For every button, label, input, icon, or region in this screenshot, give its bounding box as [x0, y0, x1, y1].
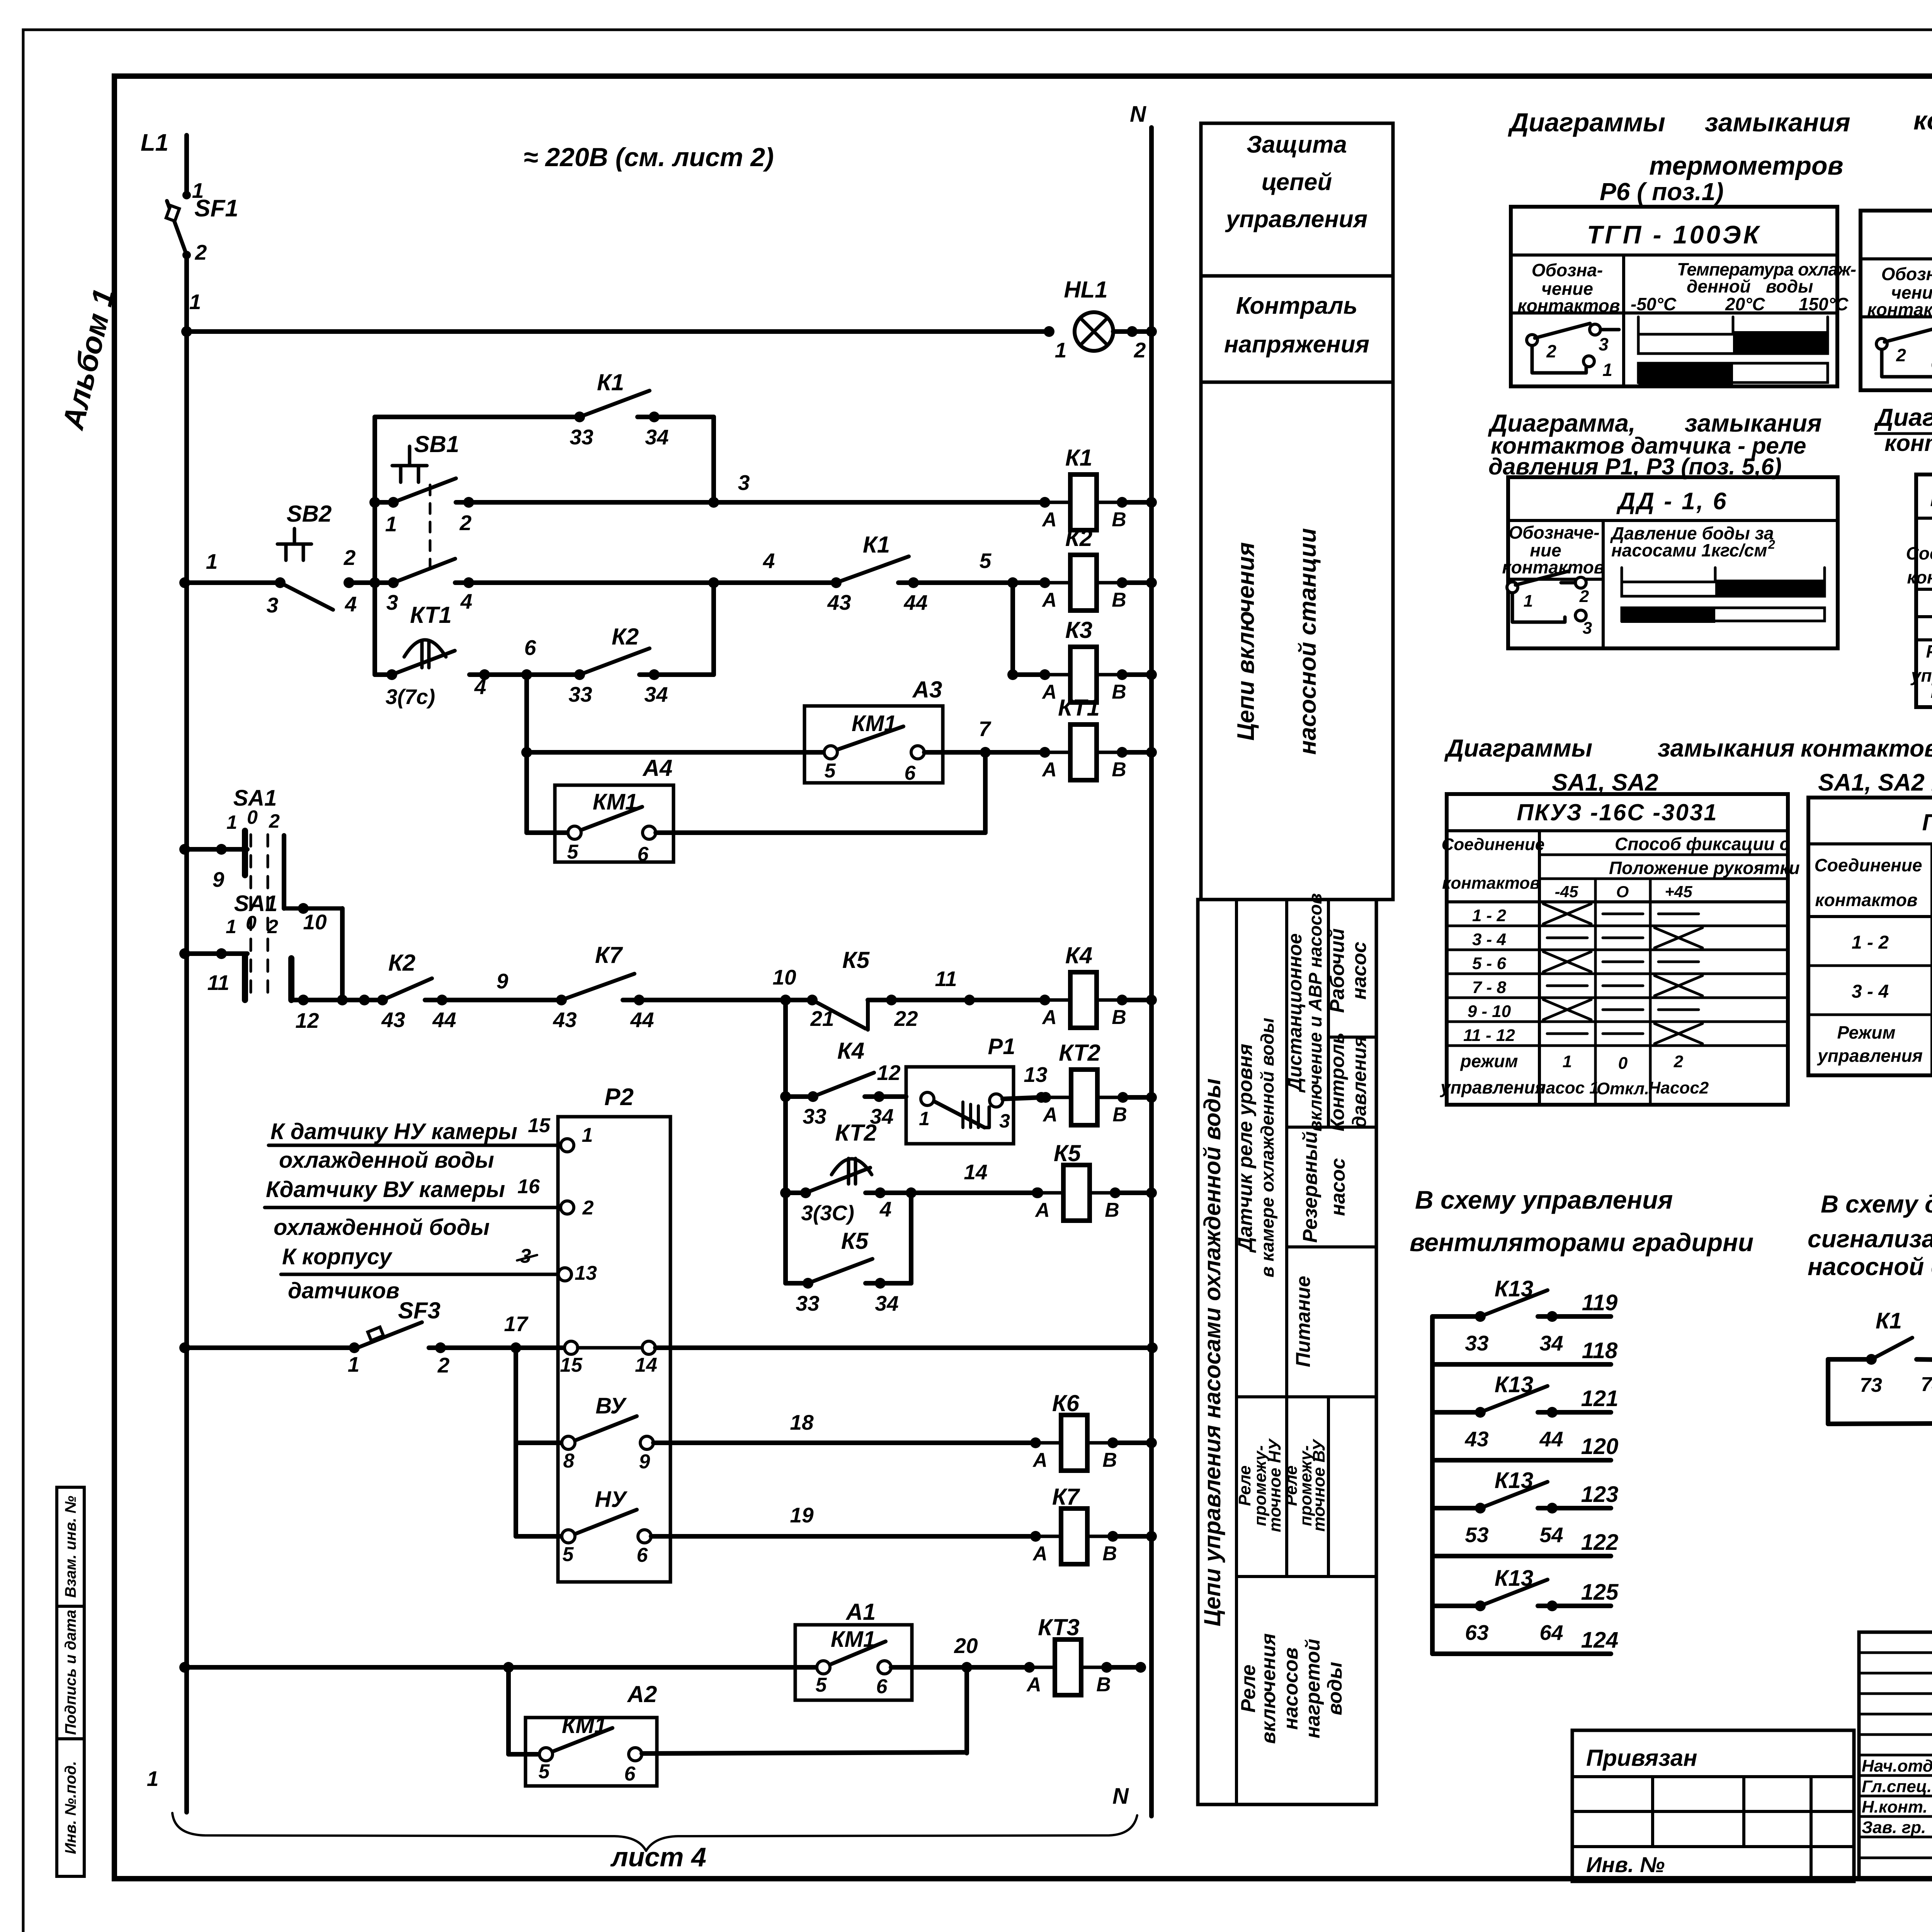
svg-text:Резервный: Резервный [1299, 1131, 1321, 1243]
svg-text:управления: управления [1440, 1077, 1546, 1097]
svg-text:КТ2: КТ2 [835, 1120, 877, 1146]
svg-text:20°С: 20°С [1725, 294, 1765, 314]
pressure switch box P1 [906, 1067, 1014, 1144]
wire rung A2 [506, 1667, 511, 1754]
svg-text:43: 43 [381, 1008, 405, 1032]
svg-text:11: 11 [207, 971, 229, 995]
lamp HL1 [1044, 326, 1054, 337]
svg-text:9: 9 [213, 867, 224, 891]
svg-text:В: В [1112, 681, 1126, 703]
svg-text:6: 6 [876, 1675, 888, 1698]
svg-text:5: 5 [567, 841, 579, 863]
svg-text:Цепи управления насосами ох: Цепи управления насосами охлажденной вод… [1199, 1078, 1225, 1626]
wire rung A4 [527, 830, 540, 835]
svg-text:Подпись и дата: Подпись и дата [62, 1610, 79, 1735]
svg-text:3(3С): 3(3С) [801, 1201, 854, 1225]
svg-text:контактов: контактов [1913, 106, 1932, 135]
wire rung 3 [375, 500, 393, 505]
svg-text:А: А [1032, 1543, 1048, 1565]
wire branch corner [638, 415, 714, 419]
svg-text:9: 9 [497, 969, 509, 993]
svg-text:Реле: Реле [1237, 1665, 1260, 1713]
svg-text:13: 13 [1024, 1063, 1047, 1087]
table PKU3-16C-3031 [1447, 794, 1788, 1105]
svg-text:контактов: контактов [1907, 567, 1932, 587]
relay coil КТ2 [1040, 1092, 1051, 1103]
svg-text:Р6 ( поз.1): Р6 ( поз.1) [1600, 178, 1724, 206]
svg-text:К1: К1 [1065, 445, 1092, 471]
svg-text:Инв. №: Инв. № [1586, 1852, 1665, 1877]
svg-text:насосами 1кгс/см: насосами 1кгс/см [1611, 540, 1767, 560]
svg-text:9: 9 [639, 1451, 650, 1473]
svg-text:5 - 6: 5 - 6 [1472, 954, 1507, 973]
svg-text:А3: А3 [912, 677, 942, 702]
left rail wire 1 [184, 255, 189, 1812]
svg-text:насосной станции): насосной станции) [1808, 1253, 1932, 1281]
svg-text:В: В [1112, 1104, 1127, 1126]
svg-text:10: 10 [303, 910, 327, 934]
changeover contact symbol [1876, 338, 1887, 349]
svg-text:2: 2 [582, 1197, 594, 1219]
closure bar diagram DD [1621, 568, 1623, 580]
sheet-4 brace [172, 1813, 1137, 1851]
svg-text:цепей: цепей [1262, 169, 1332, 196]
wire rung 18 [653, 1440, 1036, 1445]
svg-text:33: 33 [570, 425, 593, 449]
wire stub 11 [179, 948, 190, 959]
svg-text:121: 121 [1581, 1386, 1619, 1411]
circuit breaker SF3 [357, 1322, 422, 1348]
svg-text:150°С: 150°С [1799, 294, 1849, 314]
svg-text:2: 2 [269, 810, 280, 832]
linkage dashed [250, 835, 252, 997]
svg-text:К4: К4 [1065, 942, 1092, 968]
wire stub 9 [179, 844, 190, 855]
svg-text:3: 3 [999, 1110, 1010, 1132]
svg-text:А: А [1041, 759, 1057, 781]
contact K1 33-34 [574, 412, 585, 422]
svg-text:33: 33 [568, 682, 592, 706]
wire 118 [1432, 1362, 1611, 1367]
svg-text:К5: К5 [841, 1228, 869, 1254]
svg-text:К13: К13 [1495, 1468, 1533, 1493]
column lower box grid [1198, 900, 1376, 1804]
svg-text:44: 44 [630, 1008, 654, 1032]
svg-text:124: 124 [1581, 1628, 1619, 1653]
svg-text:включение и АВР насосов: включение и АВР насосов [1305, 893, 1325, 1132]
svg-text:1: 1 [1563, 1052, 1572, 1071]
wire drop to K3 [1007, 577, 1018, 588]
relay coil К2 [1039, 577, 1050, 588]
contact K7 43-44 [556, 995, 567, 1005]
svg-text:насос: насос [1348, 942, 1371, 1000]
svg-text:Взам. инв. №: Взам. инв. № [62, 1496, 79, 1598]
svg-text:7 - 8: 7 - 8 [1472, 978, 1507, 997]
N rail [1149, 128, 1154, 1816]
svg-text:К4: К4 [837, 1038, 864, 1064]
svg-text:1: 1 [348, 1352, 360, 1376]
svg-text:Защита: Защита [1247, 131, 1347, 158]
svg-text:ПКУЗ - 16Н - 0101: ПКУЗ - 16Н - 0101 [1930, 485, 1932, 511]
svg-text:Р2: Р2 [604, 1084, 634, 1111]
svg-text:управления: управления [1817, 1046, 1923, 1066]
svg-text:Обозна-: Обозна- [1881, 264, 1932, 284]
contact K1 43-44 [831, 577, 842, 588]
svg-text:Способ фиксации с: Способ фиксации с [1615, 834, 1789, 854]
svg-text:А: А [1041, 1006, 1057, 1029]
svg-text:Диаграммы: Диаграммы [1444, 734, 1592, 762]
svg-text:Соединение: Соединение [1906, 543, 1932, 563]
svg-text:В схему диспетчерской: В схему диспетчерской [1821, 1190, 1932, 1218]
svg-text:управле-: управле- [1910, 665, 1932, 685]
table PKU3-16N-0101 [1916, 474, 1932, 707]
svg-text:5: 5 [825, 760, 836, 782]
svg-text:включения: включения [1257, 1633, 1280, 1744]
svg-text:К2: К2 [388, 950, 415, 976]
svg-text:КТ2: КТ2 [1059, 1040, 1100, 1066]
svg-text:1: 1 [1602, 360, 1612, 380]
svg-text:А: А [1032, 1449, 1048, 1471]
wire rung 1 [187, 329, 1049, 334]
svg-text:2: 2 [267, 916, 278, 937]
svg-text:Контроль: Контроль [1327, 1032, 1348, 1131]
svg-text:11 - 12: 11 - 12 [1463, 1026, 1515, 1045]
svg-text:4: 4 [879, 1197, 892, 1221]
svg-text:15: 15 [528, 1114, 551, 1137]
svg-text:1: 1 [226, 811, 237, 833]
svg-text:0: 0 [1618, 1054, 1628, 1073]
svg-text:В: В [1112, 759, 1126, 781]
svg-text:+45: +45 [1665, 883, 1692, 901]
svg-text:6: 6 [905, 762, 916, 784]
svg-text:2: 2 [1579, 587, 1589, 606]
svg-text:Положение рукоятки: Положение рукоятки [1609, 858, 1800, 878]
svg-text:34: 34 [1539, 1331, 1563, 1355]
privyazan box [1572, 1730, 1854, 1881]
sub-rail [372, 417, 377, 675]
svg-text:6: 6 [637, 1544, 648, 1566]
svg-text:43: 43 [1464, 1427, 1488, 1451]
svg-text:контактов: контактов [1442, 874, 1540, 893]
svg-text:1 - 2: 1 - 2 [1472, 906, 1507, 925]
svg-text:3 - 4: 3 - 4 [1852, 981, 1889, 1002]
svg-text:К13: К13 [1495, 1372, 1533, 1397]
svg-text:SА1, SА2: SА1, SА2 [1552, 769, 1658, 796]
relay coil К7 [1030, 1531, 1041, 1542]
terminal box P2 [558, 1117, 670, 1582]
svg-text:замыкания: замыкания [1705, 108, 1850, 137]
svg-text:2: 2 [344, 546, 356, 570]
contact K1 73-74 [1828, 1357, 1871, 1362]
contact VU 8-9 [516, 1440, 562, 1445]
svg-text:0: 0 [246, 912, 257, 934]
svg-text:5: 5 [980, 549, 992, 573]
svg-text:Питание: Питание [1292, 1276, 1315, 1367]
svg-text:13: 13 [575, 1262, 597, 1284]
wire drop to K5 contact [909, 1193, 913, 1283]
svg-text:125: 125 [1581, 1580, 1619, 1605]
time contact KT1 [404, 640, 446, 657]
svg-text:44: 44 [903, 590, 927, 614]
svg-text:насос 1: насос 1 [1536, 1078, 1599, 1097]
svg-text:КТ3: КТ3 [1038, 1614, 1080, 1640]
svg-text:12: 12 [877, 1061, 901, 1085]
changeover contact symbol [1527, 335, 1537, 345]
svg-text:54: 54 [1539, 1523, 1563, 1547]
table TGP-100EK [1511, 207, 1837, 386]
svg-text:7: 7 [979, 717, 992, 741]
wire vert inside P2 [514, 1348, 518, 1536]
svg-text:Кдатчику ВУ камеры: Кдатчику ВУ камеры [266, 1177, 505, 1202]
svg-text:управления: управления [1225, 206, 1367, 233]
svg-text:К корпусу: К корпусу [282, 1244, 393, 1269]
svg-text:2: 2 [437, 1353, 450, 1377]
column box Kontrol [1201, 276, 1393, 382]
svg-text:В: В [1105, 1199, 1119, 1221]
svg-text:118: 118 [1582, 1338, 1618, 1363]
svg-text:К1: К1 [1876, 1308, 1902, 1333]
wire rung 12 K4 [780, 1091, 791, 1102]
stamp box Podpis i data [57, 1606, 84, 1739]
svg-text:охлажденной боды: охлажденной боды [274, 1215, 490, 1240]
svg-text:ПЕ 031: ПЕ 031 [1922, 810, 1932, 835]
svg-text:122: 122 [1581, 1530, 1619, 1555]
svg-text:ПКУЗ -16С -3031: ПКУЗ -16С -3031 [1517, 799, 1718, 825]
auxiliary box A3 with KM1 contact [804, 706, 943, 783]
svg-text:ДД - 1, 6: ДД - 1, 6 [1616, 488, 1728, 515]
svg-text:Привязан: Привязан [1586, 1745, 1697, 1771]
svg-text:Датчик реле уровня: Датчик реле уровня [1234, 1044, 1257, 1253]
svg-text:В: В [1102, 1449, 1117, 1471]
contact K3 33-34 [1917, 1359, 1932, 1360]
svg-text:Дистанционное: Дистанционное [1284, 933, 1306, 1093]
svg-text:4: 4 [460, 589, 473, 613]
wire 124 [1432, 1651, 1611, 1656]
relay coil К1 [1039, 497, 1050, 508]
svg-text:Откл.: Откл. [1597, 1079, 1649, 1098]
wire K1 branch [375, 415, 580, 419]
contact К13 33-34 [1432, 1314, 1480, 1319]
svg-text:6: 6 [524, 636, 536, 660]
svg-text:насосов: насосов [1280, 1647, 1302, 1730]
svg-text:А: А [1042, 1104, 1058, 1126]
svg-text:44: 44 [432, 1008, 456, 1032]
svg-text:0: 0 [247, 806, 258, 828]
wire node6 drop [524, 675, 529, 833]
svg-text:охлажденной воды: охлажденной воды [279, 1148, 494, 1173]
svg-text:2: 2 [1673, 1052, 1684, 1071]
table LE 031 [1808, 798, 1932, 1075]
svg-text:воды: воды [1766, 276, 1813, 296]
svg-text:Гл.спец.: Гл.спец. [1862, 1777, 1932, 1796]
svg-text:21: 21 [810, 1007, 834, 1031]
svg-text:17: 17 [504, 1312, 529, 1336]
svg-text:О: О [1616, 883, 1629, 901]
wire up to node 7 [983, 752, 988, 833]
contact K2 33-34 [574, 669, 585, 680]
svg-text:2: 2 [195, 240, 207, 264]
svg-text:3: 3 [386, 590, 398, 614]
svg-text:К13: К13 [1495, 1566, 1533, 1591]
auxiliary box A2 with KM1 contact [526, 1718, 657, 1786]
wire rung 3 to coil [456, 500, 1044, 505]
time contact KT2 [832, 1159, 872, 1175]
svg-text:120: 120 [1581, 1434, 1619, 1459]
relay coil КТ1 [1039, 747, 1050, 758]
relay coil К6 [1030, 1437, 1041, 1448]
svg-text:11: 11 [935, 967, 957, 991]
svg-text:К2: К2 [1065, 525, 1092, 551]
svg-text:3: 3 [267, 593, 279, 617]
phase wire L1 lead [184, 135, 189, 195]
svg-text:А: А [1041, 681, 1057, 703]
svg-text:1: 1 [919, 1108, 930, 1129]
svg-text:в камере охлажденной воды: в камере охлажденной воды [1257, 1018, 1277, 1277]
svg-text:насосной станции: насосной станции [1294, 528, 1321, 755]
svg-text:34: 34 [645, 425, 668, 449]
svg-text:3: 3 [1599, 334, 1609, 354]
svg-text:В: В [1112, 589, 1126, 611]
wire drop node20 [964, 1667, 969, 1753]
svg-text:33: 33 [796, 1291, 819, 1315]
wire rung 3(7c) [375, 672, 392, 677]
auxiliary box A4 with KM1 contact [555, 785, 673, 862]
svg-text:3(7с): 3(7с) [386, 685, 435, 709]
changeover contact symbol DD [1507, 582, 1518, 593]
svg-text:Рабочий: Рабочий [1326, 929, 1349, 1013]
svg-text:N: N [1130, 102, 1146, 127]
svg-text:датчиков: датчиков [288, 1278, 400, 1303]
svg-text:73: 73 [1860, 1374, 1882, 1396]
svg-text:Диаграммы: Диаграммы [1508, 108, 1665, 137]
contact SB1 lower [388, 577, 399, 588]
svg-text:В: В [1102, 1543, 1117, 1565]
svg-text:4: 4 [763, 549, 775, 573]
svg-text:А: А [1041, 509, 1057, 531]
svg-text:16: 16 [517, 1175, 540, 1198]
auxiliary box A1 with KM1 contact [795, 1625, 912, 1700]
signature table [1859, 1632, 1932, 1879]
svg-text:сигнализации (включение: сигнализации (включение [1808, 1225, 1932, 1253]
svg-text:SB1: SB1 [414, 431, 459, 457]
svg-text:Контраль: Контраль [1236, 293, 1358, 319]
svg-text:8: 8 [563, 1450, 575, 1472]
svg-text:4: 4 [345, 592, 357, 616]
svg-text:74: 74 [1921, 1373, 1932, 1396]
svg-text:К3: К3 [1065, 617, 1092, 643]
stamp box Vzam inv N [57, 1487, 84, 1606]
svg-text:Режим: Режим [1926, 641, 1932, 662]
svg-text:1: 1 [189, 290, 201, 314]
svg-text:Соединение: Соединение [1815, 855, 1922, 875]
svg-text:Зав. гр.: Зав. гр. [1862, 1818, 1926, 1837]
svg-text:К5: К5 [842, 947, 870, 973]
contact К13 53-54 [1432, 1506, 1480, 1510]
svg-text:давления: давления [1349, 1036, 1370, 1128]
svg-text:НУ: НУ [595, 1487, 628, 1512]
svg-text:К2: К2 [612, 624, 639, 650]
svg-text:2: 2 [1134, 338, 1146, 362]
svg-text:33: 33 [1465, 1331, 1488, 1355]
svg-text:Н.конт.: Н.конт. [1862, 1798, 1928, 1816]
svg-text:Режим: Режим [1837, 1022, 1895, 1043]
svg-text:SF1: SF1 [194, 195, 238, 222]
closure bar diagram [1637, 317, 1640, 334]
svg-text:≈ 220В (см. лист 2): ≈ 220В (см. лист 2) [524, 143, 774, 172]
svg-text:Р1: Р1 [988, 1034, 1015, 1059]
svg-text:-45: -45 [1555, 883, 1578, 901]
relay coil К3 [1039, 669, 1050, 680]
svg-text:1: 1 [1055, 338, 1067, 362]
svg-text:ния: ния [1931, 682, 1932, 702]
svg-text:14: 14 [964, 1160, 987, 1184]
svg-text:К7: К7 [595, 942, 623, 968]
wire rung 7 [527, 750, 825, 755]
table TGP-100EK [1861, 211, 1932, 390]
contact K2 43-44 [359, 995, 370, 1005]
svg-text:В: В [1096, 1673, 1111, 1696]
svg-text:-50°С: -50°С [1631, 294, 1677, 314]
svg-text:А: А [1034, 1199, 1050, 1221]
svg-text:Диаграмма: Диаграмма [1874, 403, 1932, 431]
svg-text:воды: воды [1324, 1662, 1346, 1715]
svg-text:43: 43 [553, 1008, 577, 1032]
svg-text:лист 4: лист 4 [610, 1842, 706, 1872]
svg-text:В: В [1112, 509, 1126, 531]
svg-text:нагретой: нагретой [1302, 1639, 1324, 1738]
relay coil К4 [1039, 995, 1050, 1005]
svg-text:Соединение: Соединение [1442, 835, 1545, 854]
svg-text:3: 3 [1583, 619, 1592, 638]
svg-text:34: 34 [644, 682, 668, 706]
svg-text:В: В [1112, 1006, 1126, 1029]
contact К13 43-44 [1432, 1410, 1480, 1415]
column box Zashchita [1201, 123, 1393, 276]
svg-text:контактов: контактов [1815, 890, 1917, 910]
svg-text:К13: К13 [1495, 1276, 1533, 1301]
wire 126 return [1826, 1359, 1830, 1424]
svg-text:Цепи включения: Цепи включения [1233, 542, 1259, 741]
svg-text:43: 43 [827, 590, 851, 614]
svg-text:63: 63 [1465, 1621, 1488, 1645]
contact К13 63-64 [1432, 1604, 1480, 1608]
svg-text:10: 10 [772, 965, 796, 989]
svg-text:5: 5 [816, 1674, 827, 1696]
svg-text:33: 33 [803, 1104, 826, 1128]
svg-text:денной: денной [1687, 276, 1751, 296]
svg-text:1: 1 [147, 1767, 159, 1791]
svg-text:контактов переключа-: контактов переключа- [1884, 430, 1932, 456]
svg-text:9 - 10: 9 - 10 [1468, 1002, 1511, 1021]
wire rung 20 [179, 1662, 190, 1673]
svg-text:А1: А1 [845, 1599, 876, 1625]
svg-text:1: 1 [385, 512, 397, 536]
relay coil К5 [1032, 1187, 1043, 1198]
svg-text:119: 119 [1582, 1290, 1617, 1315]
sub-rail 10 [783, 1000, 788, 1283]
svg-text:L1: L1 [141, 129, 168, 156]
svg-text:К7: К7 [1052, 1484, 1080, 1510]
svg-text:1: 1 [206, 549, 218, 573]
contact NU 5-6 [516, 1534, 562, 1539]
push-button SB2 [293, 529, 296, 544]
svg-text:SА1, SА2 постов S1, S2, S3: SА1, SА2 постов S1, S2, S3 [1818, 769, 1932, 796]
svg-text:Обозна-: Обозна- [1532, 260, 1603, 280]
wire rung 4 [179, 577, 190, 588]
svg-text:53: 53 [1465, 1523, 1488, 1547]
svg-text:Насос2: Насос2 [1648, 1078, 1709, 1097]
svg-text:2: 2 [1546, 341, 1556, 361]
